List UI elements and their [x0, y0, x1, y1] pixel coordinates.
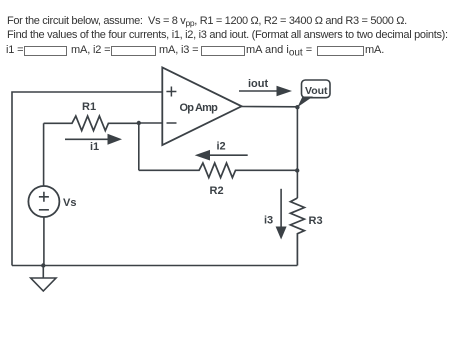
wire: feedback down from junction: [138, 123, 140, 170]
op-amp U1: [162, 67, 241, 145]
resistor R3: [290, 198, 304, 266]
arrow iout: [239, 90, 277, 92]
Vout callout tail: [297, 97, 313, 108]
resistor R1: [44, 116, 139, 131]
svg-text:Op Amp: Op Amp: [180, 102, 219, 114]
wire: bottom rail: [12, 265, 297, 267]
question text line 1: [7, 15, 407, 27]
svg-text:Vs: Vs: [63, 197, 76, 209]
svg-text:i3: i3: [264, 215, 273, 227]
question text line 3 with answer boxes: [6, 44, 23, 56]
svg-text:iout: iout: [248, 78, 268, 90]
voltage source Vs: [28, 186, 59, 217]
Vout callout box: [302, 80, 331, 98]
wire: Vs branch vertical top: [43, 123, 45, 186]
question text line 2: [7, 29, 448, 41]
svg-text:i2: i2: [217, 141, 226, 153]
svg-text:Vout: Vout: [305, 85, 328, 97]
node Vout junction: [295, 105, 299, 109]
arrow i2: [209, 154, 248, 156]
arrow i3: [280, 189, 282, 227]
svg-text:R3: R3: [309, 215, 323, 227]
wire: junction to - input: [139, 122, 163, 124]
wire: Vs bottom to rail: [43, 217, 45, 266]
svg-text:i1: i1: [90, 141, 99, 153]
resistor R2: [139, 163, 297, 178]
node: feedback/output junction: [295, 168, 299, 172]
wire: top rail from + input to left rail: [12, 92, 162, 266]
arrow i1: [65, 138, 108, 140]
svg-text:R2: R2: [210, 185, 224, 197]
wire: right vertical output to R3: [296, 107, 298, 198]
node: inverting input junction: [137, 121, 141, 125]
junction: ground node: [41, 263, 45, 267]
wire: output to node: [242, 106, 298, 108]
ground: [31, 266, 56, 292]
svg-text:R1: R1: [82, 101, 96, 113]
